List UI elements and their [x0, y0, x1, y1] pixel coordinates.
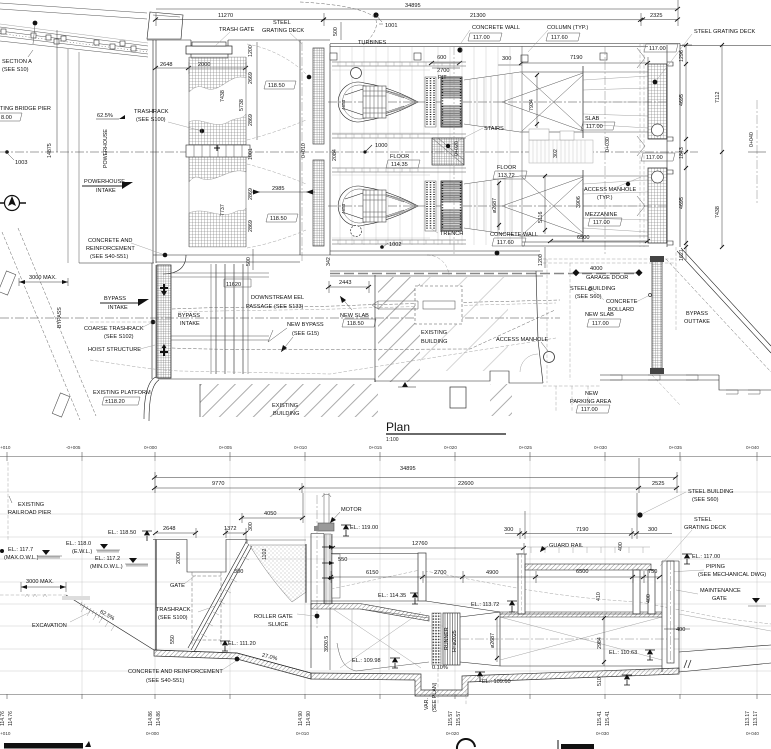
- elevation value columns: [0, 711, 759, 726]
- stair band in intake: [186, 145, 250, 157]
- railroad dot: [33, 21, 38, 26]
- floor beam band upper: [332, 62, 466, 66]
- svg-text:ACCESS MANHOLE: ACCESS MANHOLE: [584, 187, 636, 193]
- floor beam band mid1: [332, 134, 466, 138]
- svg-text:(TYP.): (TYP.): [597, 195, 613, 201]
- pit dim small: [432, 67, 460, 69]
- svg-text:115.57: 115.57: [448, 711, 454, 726]
- svg-text:115.41: 115.41: [605, 711, 611, 726]
- svg-text:118.50: 118.50: [270, 216, 287, 222]
- roller gate sluice walls: [306, 534, 324, 669]
- svg-text:EXISTING: EXISTING: [18, 502, 44, 508]
- svg-text:(SEE S60): (SEE S60): [692, 497, 719, 503]
- svg-text:SLUICE: SLUICE: [268, 622, 288, 628]
- svg-text:BYPASS: BYPASS: [686, 311, 708, 317]
- svg-text:COLUMN (TYP.): COLUMN (TYP.): [547, 25, 588, 31]
- svg-text:1002: 1002: [389, 242, 401, 248]
- svg-text:1001: 1001: [385, 23, 397, 29]
- svg-text:0+020: 0+020: [444, 445, 457, 450]
- svg-text:EL.: 118.50: EL.: 118.50: [108, 530, 136, 536]
- svg-text:114.90: 114.90: [298, 711, 304, 726]
- svg-text:ø2687: ø2687: [490, 633, 496, 648]
- svg-text:114.35: 114.35: [391, 162, 408, 168]
- water/ground dashed profile: [331, 570, 771, 624]
- svg-text:114.86: 114.86: [156, 711, 162, 726]
- svg-text:1200: 1200: [538, 254, 544, 266]
- svg-text:21300: 21300: [470, 13, 486, 19]
- svg-text:117.00: 117.00: [586, 124, 603, 130]
- conduit ceiling slab: [311, 604, 429, 622]
- main centerline: [0, 151, 698, 153]
- svg-text:1000: 1000: [375, 143, 387, 149]
- svg-text:2084: 2084: [332, 149, 338, 161]
- svg-text:117.00: 117.00: [473, 35, 490, 41]
- small hatch block right: [490, 384, 512, 416]
- svg-text:117.60: 117.60: [497, 240, 514, 246]
- svg-text:TRASHRACK: TRASHRACK: [156, 607, 191, 613]
- floor beam band lower: [332, 240, 466, 244]
- svg-text:BYPASS: BYPASS: [104, 296, 126, 302]
- svg-text:POWERHOUSE: POWERHOUSE: [103, 129, 109, 168]
- svg-text:3000 MAX.: 3000 MAX.: [26, 579, 54, 585]
- svg-text:EL.: 119.00: EL.: 119.00: [350, 525, 378, 531]
- svg-text:RUNNER: RUNNER: [444, 627, 450, 650]
- svg-text:2648: 2648: [160, 62, 172, 68]
- svg-text:(SEE PLAN): (SEE PLAN): [432, 682, 438, 712]
- partial Section title letter: [457, 739, 475, 749]
- svg-text:117.00: 117.00: [649, 46, 666, 52]
- intake lower left corner walls: [153, 255, 330, 262]
- svg-text:3930.5: 3930.5: [324, 636, 330, 652]
- svg-text:2648: 2648: [163, 526, 175, 532]
- svg-text:EL.: 118.0: EL.: 118.0: [66, 541, 91, 547]
- draft tube: [460, 612, 500, 666]
- svg-text:117.00: 117.00: [593, 220, 610, 226]
- svg-text:0+030: 0+030: [594, 445, 607, 450]
- svg-text:118.50: 118.50: [347, 321, 364, 327]
- right edge dimension lines: [682, 45, 692, 152]
- new bypass dashed channel: [172, 300, 560, 309]
- svg-text:4900: 4900: [486, 570, 498, 576]
- powerhouse bottom wall: [330, 242, 649, 255]
- svg-text:510: 510: [597, 677, 603, 686]
- runner/generator stack: [441, 77, 462, 127]
- svg-text:FLOOR: FLOOR: [390, 154, 409, 160]
- svg-text:STAIRS: STAIRS: [484, 126, 504, 132]
- svg-text:ø2687: ø2687: [492, 198, 498, 213]
- svg-text:750: 750: [648, 569, 657, 575]
- right platform band: [600, 375, 771, 390]
- svg-text:7934: 7934: [529, 99, 535, 111]
- svg-text:550: 550: [170, 635, 176, 644]
- svg-text:(SEE MECHANICAL DWG): (SEE MECHANICAL DWG): [698, 572, 766, 578]
- svg-text:EL.: 109.60: EL.: 109.60: [482, 679, 511, 685]
- svg-text:2443: 2443: [339, 280, 351, 286]
- svg-text:INTAKE: INTAKE: [108, 305, 128, 311]
- svg-text:1296: 1296: [679, 50, 685, 62]
- steel grating strip (intake right): [313, 48, 324, 144]
- bench mark: [402, 382, 408, 387]
- vertical dims col (1200/2669/2869 etc): [256, 42, 258, 140]
- converging lines to runner: [356, 609, 429, 671]
- svg-text:400: 400: [618, 542, 624, 551]
- station 0+040: [756, 100, 758, 205]
- svg-text:342: 342: [326, 257, 332, 266]
- railroad track band: [0, 27, 148, 57]
- svg-text:NEW: NEW: [585, 391, 599, 397]
- svg-text:0.10%: 0.10%: [432, 665, 448, 671]
- svg-text:DOWNSTREAM EEL: DOWNSTREAM EEL: [251, 295, 304, 301]
- svg-text:1:100: 1:100: [386, 437, 399, 443]
- svg-text:TRASHRACK: TRASHRACK: [134, 109, 169, 115]
- svg-text:TURBINES: TURBINES: [358, 40, 387, 46]
- svg-text:12760: 12760: [412, 541, 428, 547]
- svg-text:1200: 1200: [248, 45, 254, 57]
- svg-text:0+000: 0+000: [146, 731, 159, 736]
- right wall of powerhouse: [667, 44, 680, 248]
- svg-text:TRENCH: TRENCH: [440, 231, 463, 237]
- svg-text:400: 400: [646, 594, 652, 603]
- svg-text:-0+010: -0+010: [0, 731, 11, 736]
- svg-text:CONCRETE AND REINFORCEMENT: CONCRETE AND REINFORCEMENT: [128, 669, 223, 675]
- bottom label band rule: [0, 694, 771, 696]
- elevation box 118.00: [0, 113, 22, 121]
- access road diagonal dashed: [2, 232, 80, 420]
- svg-text:(MAX.O.W.L.): (MAX.O.W.L.): [4, 555, 39, 561]
- top right deck line to edge: [680, 45, 771, 47]
- svg-text:4050: 4050: [264, 511, 276, 517]
- elevation tag 118.50 lower: [266, 214, 298, 222]
- svg-text:62.5%: 62.5%: [97, 113, 113, 119]
- pier trapezoid at intake corner: [147, 12, 183, 39]
- svg-text:MOTOR: MOTOR: [341, 507, 362, 513]
- guide cone hatch: [386, 92, 404, 112]
- svg-text:1001: 1001: [248, 148, 254, 160]
- powerhouse top wall: [330, 44, 680, 47]
- existing building sparse hatch: [420, 277, 508, 371]
- concrete wedge behind trashrack: [250, 545, 306, 602]
- svg-text:HOIST STRUCTURE: HOIST STRUCTURE: [88, 347, 141, 353]
- building right wall: [536, 271, 543, 383]
- chamber floor slab + sump: [311, 668, 679, 696]
- svg-text:300: 300: [248, 522, 254, 531]
- svg-text:Plan: Plan: [386, 420, 410, 434]
- steel building section: [637, 512, 642, 517]
- svg-text:EL.: 114.35: EL.: 114.35: [378, 593, 406, 599]
- svg-text:7438: 7438: [220, 90, 226, 102]
- svg-text:MAINTENANCE: MAINTENANCE: [700, 588, 741, 594]
- svg-text:FLOOR: FLOOR: [497, 165, 516, 171]
- svg-text:0+030: 0+030: [605, 137, 611, 152]
- svg-text:OUTTAKE: OUTTAKE: [684, 319, 710, 325]
- dim 14875 vertical: [56, 30, 58, 152]
- gate stem hatched: [325, 534, 331, 604]
- bulb outline: [338, 82, 418, 122]
- svg-text:0+030: 0+030: [596, 731, 609, 736]
- svg-text:2700: 2700: [434, 570, 446, 576]
- svg-text:EXISTING PLATFORM: EXISTING PLATFORM: [93, 390, 151, 396]
- svg-text:NEW SLAB: NEW SLAB: [585, 312, 614, 318]
- svg-text:(SEE S100): (SEE S100): [136, 117, 166, 123]
- svg-text:5738: 5738: [239, 99, 245, 111]
- svg-text:1003: 1003: [15, 160, 27, 166]
- svg-text:(SEE G15): (SEE G15): [292, 331, 319, 337]
- svg-text:410: 410: [596, 592, 602, 601]
- svg-text:6500: 6500: [577, 235, 589, 241]
- station 0+030: [604, 46, 606, 256]
- svg-text:CONCRETE: CONCRETE: [606, 299, 638, 305]
- elevation tag 118.50 upper: [264, 81, 296, 89]
- svg-text:14875: 14875: [47, 143, 53, 158]
- svg-text:2325: 2325: [650, 13, 662, 19]
- svg-text:0+000: 0+000: [144, 445, 157, 450]
- intake top edge: [147, 39, 330, 41]
- node 1003: [5, 150, 9, 154]
- runner assembly: [432, 613, 441, 665]
- node 1000: [365, 145, 372, 152]
- dim 500 vertical small: [252, 249, 254, 270]
- svg-text:EL.: 109.98: EL.: 109.98: [352, 658, 381, 664]
- station header row: [0, 445, 759, 450]
- svg-text:4695: 4695: [679, 94, 685, 106]
- svg-text:2869: 2869: [248, 114, 254, 126]
- svg-text:EL.: 117.2: EL.: 117.2: [95, 556, 120, 562]
- svg-text:PARKING AREA: PARKING AREA: [570, 399, 612, 405]
- dim small 1200/342: [544, 247, 546, 268]
- svg-text:(SEE S102): (SEE S102): [104, 334, 134, 340]
- svg-text:(SEE S40-S51): (SEE S40-S51): [146, 678, 184, 684]
- unit 2 centerline: [328, 205, 668, 207]
- existing building top double line: [330, 271, 543, 276]
- svg-text:EL.: 117.00: EL.: 117.00: [692, 554, 720, 560]
- svg-text:4653: 4653: [341, 203, 346, 214]
- svg-text:(SEE S10): (SEE S10): [2, 67, 29, 73]
- columns along top wall: [330, 53, 337, 60]
- svg-text:118.50: 118.50: [268, 83, 285, 89]
- svg-text:TING BRIDGE PIER: TING BRIDGE PIER: [0, 106, 51, 112]
- station grid verticals: [82, 457, 757, 694]
- right bank line: [679, 614, 771, 631]
- ÃƒÂ¸2687 dim: [496, 617, 498, 662]
- turbine unit 1: [338, 66, 648, 138]
- svg-text:GARAGE DOOR: GARAGE DOOR: [586, 275, 628, 281]
- parking dashes: [543, 386, 600, 412]
- svg-text:TRASH GATE: TRASH GATE: [219, 27, 255, 33]
- outflow: [679, 645, 771, 672]
- elevation grid horizontals: [0, 492, 771, 671]
- svg-text:0+010: 0+010: [301, 143, 307, 158]
- svg-text:115.41: 115.41: [597, 711, 603, 726]
- svg-text:500: 500: [333, 27, 339, 36]
- 117.00 tag top right: [644, 44, 678, 52]
- svg-text:GATE: GATE: [712, 596, 727, 602]
- svg-text:500: 500: [246, 257, 252, 266]
- intake deck and gate slot: [155, 540, 157, 651]
- svg-text:VAR.: VAR.: [424, 698, 430, 710]
- svg-text:302: 302: [553, 149, 559, 158]
- svg-text:7737: 7737: [220, 204, 226, 216]
- svg-text:0+010: 0+010: [296, 731, 309, 736]
- unit1 access circle: [351, 68, 362, 79]
- 117.00 tag mid right: [641, 153, 675, 161]
- steel grating deck lower right: [648, 168, 667, 243]
- trashrack leader dot: [200, 129, 205, 134]
- svg-text:CONCRETE AND: CONCRETE AND: [88, 238, 132, 244]
- svg-text:EL.: 117.7: EL.: 117.7: [8, 547, 33, 553]
- svg-text:113.17: 113.17: [745, 711, 751, 726]
- trash gate box: [191, 40, 228, 58]
- svg-text:0+010: 0+010: [294, 445, 307, 450]
- svg-text:1843: 1843: [679, 147, 685, 159]
- svg-text:STEEL: STEEL: [273, 20, 291, 26]
- svg-text:0+020: 0+020: [446, 731, 459, 736]
- gate hoist stem + hook: [322, 493, 331, 524]
- svg-text:GUARD RAIL: GUARD RAIL: [549, 543, 583, 549]
- svg-text:INTAKE: INTAKE: [180, 321, 200, 327]
- svg-text:REINFORCEMENT: REINFORCEMENT: [86, 246, 135, 252]
- svg-text:115.57: 115.57: [456, 711, 462, 726]
- svg-text:4000: 4000: [590, 266, 602, 272]
- svg-text:STEEL BUILDING: STEEL BUILDING: [688, 489, 734, 495]
- dim 1621 right & wall below: [675, 247, 677, 330]
- existing building left hatched band: [378, 277, 420, 382]
- svg-text:2525: 2525: [652, 481, 664, 487]
- svg-text:400: 400: [676, 627, 685, 633]
- crane swing dashed arc: [300, 2, 377, 46]
- motor block: [318, 523, 334, 531]
- svg-text:ACCESS MANHOLE: ACCESS MANHOLE: [496, 337, 548, 343]
- excavation: [0, 594, 66, 596]
- bottom station row: [0, 731, 759, 736]
- steel grating deck upper right: [648, 64, 667, 139]
- svg-text:5116: 5116: [538, 212, 544, 223]
- intake inner wall: [300, 40, 330, 255]
- svg-text:2869: 2869: [248, 220, 254, 232]
- svg-text:MEZZANINE: MEZZANINE: [585, 212, 618, 218]
- svg-text:550: 550: [338, 557, 347, 563]
- header rule: [0, 456, 771, 458]
- break zigzags near wall: [637, 48, 645, 216]
- svg-text:GRATING DECK: GRATING DECK: [262, 28, 304, 34]
- bolt ring columns: [425, 77, 436, 127]
- svg-text:GATE: GATE: [170, 583, 185, 589]
- svg-text:4695: 4695: [679, 197, 685, 209]
- svg-text:GRATING DECK: GRATING DECK: [684, 525, 726, 531]
- north arrow: [0, 196, 26, 211]
- existing platform curve: [144, 377, 159, 421]
- svg-text:-0+005: -0+005: [66, 445, 81, 450]
- left deck line and pier: [331, 553, 418, 555]
- bypass conduit walls: [216, 264, 243, 374]
- svg-text:113.17: 113.17: [753, 711, 759, 726]
- svg-text:EL.: 113.72: EL.: 113.72: [471, 602, 499, 608]
- svg-text:SECTION A: SECTION A: [2, 59, 32, 65]
- svg-text:3000 MAX.: 3000 MAX.: [29, 275, 57, 281]
- curved wall corner: [163, 255, 186, 274]
- svg-text:34895: 34895: [400, 466, 416, 472]
- svg-text:114.86: 114.86: [148, 711, 154, 726]
- svg-text:2985: 2985: [272, 186, 284, 192]
- svg-text:EXISTING: EXISTING: [421, 330, 447, 336]
- building bottom edge: [158, 379, 375, 382]
- svg-text:0+035: 0+035: [669, 445, 682, 450]
- svg-text:H≈ø2025: H≈ø2025: [452, 630, 458, 652]
- svg-text:2669: 2669: [248, 72, 254, 84]
- trench equipment between units: [529, 140, 593, 163]
- station line 0+010: [301, 42, 303, 262]
- unit2 access circle: [351, 226, 362, 237]
- svg-text:0+015: 0+015: [369, 445, 382, 450]
- stairs block unit1 side: [432, 138, 464, 165]
- svg-text:(E.W.L.): (E.W.L.): [72, 549, 92, 555]
- svg-text:6150: 6150: [366, 570, 378, 576]
- svg-text:COARSE TRASHRACK: COARSE TRASHRACK: [84, 326, 144, 332]
- svg-text:7112: 7112: [715, 92, 721, 103]
- svg-text:STEEL GRATING DECK: STEEL GRATING DECK: [694, 29, 755, 35]
- svg-text:2984: 2984: [597, 637, 603, 649]
- lower hatched band of existing building: [200, 384, 378, 417]
- trashrack hatched band: [189, 57, 246, 92]
- trashrack slope: [188, 542, 252, 652]
- draft tube X: [502, 73, 583, 131]
- svg-text:EXISTING: EXISTING: [272, 403, 298, 409]
- svg-text:8.00: 8.00: [1, 115, 12, 121]
- svg-text:6500: 6500: [576, 569, 588, 575]
- svg-text:34895: 34895: [405, 3, 421, 9]
- svg-text:9770: 9770: [212, 481, 224, 487]
- expanding draft inlet ticks: [464, 72, 520, 132]
- door swing arcs: [247, 44, 306, 248]
- svg-text:EL.: 110.63: EL.: 110.63: [609, 650, 637, 656]
- svg-text:3906: 3906: [576, 196, 582, 208]
- equipment dashed rect inside building: [415, 286, 462, 324]
- draft tube dim verticals: [537, 74, 583, 234]
- svg-text:600: 600: [437, 55, 446, 61]
- svg-text:INTAKE: INTAKE: [96, 188, 116, 194]
- door arc near manhole: [520, 354, 538, 372]
- svg-text:ROLLER GATE: ROLLER GATE: [254, 614, 293, 620]
- svg-text:EXCAVATION: EXCAVATION: [32, 623, 67, 629]
- svg-text:±118.20: ±118.20: [105, 399, 125, 405]
- svg-text:7438: 7438: [715, 206, 721, 218]
- svg-text:0+005: 0+005: [219, 445, 232, 450]
- svg-text:11270: 11270: [218, 13, 233, 19]
- svg-text:STEEL: STEEL: [694, 517, 712, 523]
- station 0+020: [453, 46, 455, 256]
- svg-text:(SEE S40-S51): (SEE S40-S51): [90, 254, 128, 260]
- bottom black bar (title block edge): [4, 743, 83, 749]
- floor beam band mid2: [332, 168, 466, 172]
- unit 1 centerline: [328, 101, 668, 103]
- turbine unit 2 (mirror copy): [338, 170, 648, 242]
- bypass intake hatched strip: [157, 265, 171, 378]
- chamber interior faint bracing: [333, 609, 421, 668]
- svg-text:114.76: 114.76: [0, 711, 6, 726]
- bypass centerline: [0, 317, 560, 319]
- svg-text:CONCRETE WALL: CONCRETE WALL: [472, 25, 520, 31]
- svg-text:113.72: 113.72: [498, 173, 515, 179]
- node 1002: [380, 245, 384, 249]
- intake outer wall left: [153, 40, 156, 263]
- water levels: [4, 541, 148, 570]
- svg-text:22600: 22600: [458, 481, 474, 487]
- steel building dashed outline: [543, 259, 676, 383]
- bulb internals grid: [363, 86, 386, 118]
- svg-text:(SEE S100): (SEE S100): [158, 615, 188, 621]
- svg-text:STEEL BUILDING: STEEL BUILDING: [570, 286, 616, 292]
- machine hall faint column grid: [340, 47, 424, 245]
- svg-text:0+040: 0+040: [746, 445, 759, 450]
